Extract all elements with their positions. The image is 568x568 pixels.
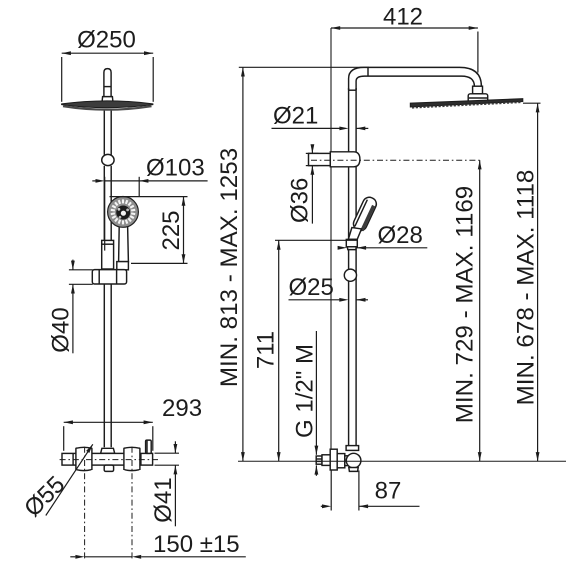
wall supply fitting (side view) [316, 449, 361, 471]
riser collar above wall fitting (side view) [346, 446, 359, 451]
bracket centerline (side view) [311, 159, 480, 161]
dimension D103 (front view) [92, 155, 207, 251]
svg-text:Ø41: Ø41 [150, 477, 177, 522]
fitting centerline (side view) [238, 460, 566, 462]
riser pipe (side view) [349, 88, 357, 446]
dimension 412 (side view) [331, 4, 478, 73]
svg-text:711: 711 [253, 331, 280, 369]
riser pipe (front view) [104, 109, 111, 447]
hose ball joint (side view) [344, 269, 356, 281]
svg-text:225: 225 [158, 210, 185, 250]
svg-text:Ø36: Ø36 [286, 178, 313, 223]
dimension MIN.729-MAX.1169 (side view) [451, 160, 481, 461]
hand shower (side view) [346, 195, 378, 249]
mixer left knob (front view) [76, 447, 92, 470]
svg-text:87: 87 [375, 478, 402, 505]
dimension 225 (front view) [110, 197, 188, 264]
svg-text:293: 293 [162, 395, 202, 422]
dimension D28 (side view) [338, 222, 428, 250]
dimension 87 (side view) [321, 471, 420, 511]
dimension D25 (side view) [289, 274, 369, 302]
svg-text:G 1/2" M: G 1/2" M [291, 344, 318, 438]
riser pipe seam below elbow (side view) [349, 89, 357, 91]
overhead shower disc (front view) [62, 101, 153, 110]
dimension D55 leader (front view) [19, 443, 94, 522]
slider bracket (front view) [92, 270, 126, 284]
slider sleeve on riser (front view) [102, 240, 114, 269]
svg-text:Ø40: Ø40 [48, 307, 75, 352]
dimension D40 (front view) [48, 260, 93, 354]
arm ball nut (side view) [468, 86, 488, 102]
svg-text:412: 412 [383, 4, 423, 31]
wall reference line (side view) [330, 28, 332, 449]
knob centerlines (front view) [85, 447, 132, 561]
svg-text:Ø21: Ø21 [273, 103, 318, 130]
dimension 711 (side view) [253, 240, 358, 461]
mixer right knob (front view) [124, 447, 140, 470]
dimension MIN.678-MAX.1118 (side view) [513, 103, 541, 461]
hand shower hose/handle (front view) [117, 225, 129, 269]
dimension D250 (front view) [62, 27, 154, 102]
svg-text:Ø103: Ø103 [146, 155, 205, 182]
ball joint on riser (front view) [102, 154, 114, 165]
dimension 293 (front view) [64, 395, 202, 451]
thermostatic mixer body (front view) [62, 440, 153, 471]
dimension G 1/2 M (side view) [291, 331, 318, 476]
svg-text:150 ±15: 150 ±15 [153, 531, 240, 558]
svg-text:MIN. 813 - MAX. 1253: MIN. 813 - MAX. 1253 [216, 148, 243, 387]
dimension MIN.813-MAX.1253 (side view) [216, 67, 369, 461]
dimension D41 (front view) [150, 441, 179, 526]
svg-text:MIN. 729 - MAX. 1169: MIN. 729 - MAX. 1169 [451, 186, 478, 424]
slide-rail bracket (side view) [309, 152, 360, 167]
dimension 150 +/-15 (front view) [70, 531, 246, 559]
svg-text:Ø25: Ø25 [289, 274, 334, 301]
svg-text:MIN. 678 - MAX. 1118: MIN. 678 - MAX. 1118 [513, 170, 540, 406]
dimension D21 (side view) [272, 103, 369, 131]
overhead shower head slab (side view) [410, 99, 523, 108]
svg-text:Ø28: Ø28 [378, 222, 423, 249]
upper elbow and horizontal arm (side view) [349, 67, 482, 90]
mixer centerline (front view) [60, 459, 161, 461]
svg-text:Ø250: Ø250 [77, 27, 136, 54]
dimension D36 (side view) [286, 144, 318, 223]
hand shower head (front view) [108, 197, 139, 228]
top inlet stub (front view) [102, 69, 113, 102]
